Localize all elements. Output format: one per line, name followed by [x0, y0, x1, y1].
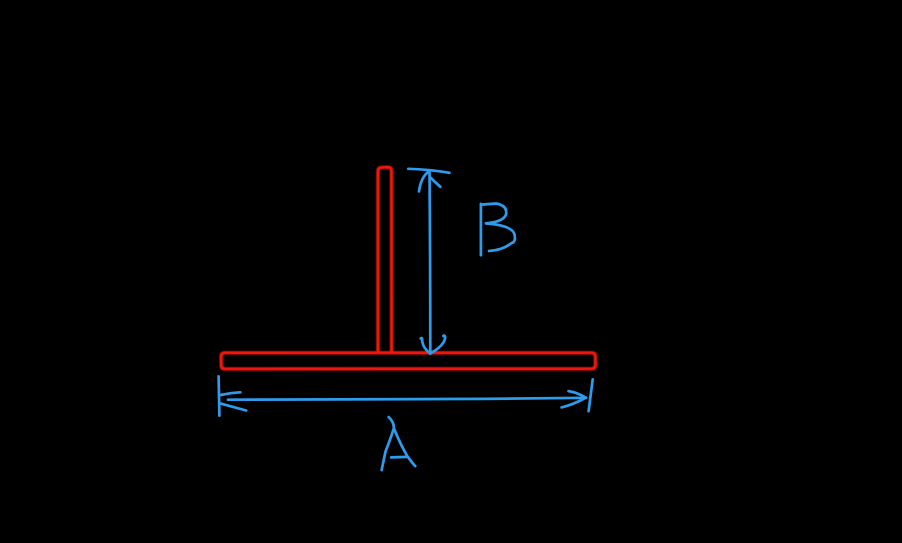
dimension A line (horizontal) — [228, 398, 586, 400]
dimension B top arrowhead left barb — [419, 172, 429, 192]
T-profile stem (vertical red bar) — [378, 167, 392, 352]
dimension A right arrowhead lower barb — [562, 398, 586, 408]
dimension A left arrowhead upper barb — [221, 392, 241, 395]
dimension A left extension tick — [217, 376, 220, 415]
dimension B extension tick (top horizontal) — [408, 169, 449, 173]
label A — [382, 417, 394, 470]
dimension B bottom arrowhead right barb — [430, 336, 445, 354]
dimension A left arrowhead lower barb — [220, 403, 246, 410]
T-profile flange (horizontal red bar) — [221, 353, 595, 369]
dimension B top arrowhead right barb — [430, 177, 440, 186]
dimension B line (vertical) — [428, 172, 431, 354]
dimension A right extension tick — [589, 379, 593, 411]
dimension B bottom arrowhead left barb — [421, 338, 431, 353]
dimension A right arrowhead upper barb — [569, 391, 586, 398]
label B — [480, 204, 483, 255]
